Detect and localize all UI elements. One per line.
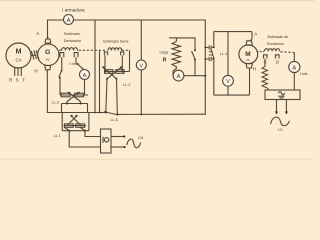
wire: LL.4 branch vertical upper [213,32,215,47]
brush terminal bottom of motor [246,64,252,68]
svg-text:H: H [253,66,256,71]
voltmeter V generator [136,60,146,70]
resistor R zigzag [172,42,181,76]
wire: A terminal drop to motor [251,32,252,41]
svg-text:Derivación: Derivación [64,39,81,43]
svg-text:M: M [16,49,22,56]
svg-text:A: A [254,32,257,37]
svg-text:V: V [139,63,143,69]
motor block top bus [214,31,252,33]
wire: voltmeter V1 branch lower [140,70,142,114]
ammeter A I excit [80,70,90,80]
wire: voltmeter V1 branch upper [140,20,142,60]
ammeter A I armadura [64,15,74,25]
wire: E lead down [104,55,106,71]
svg-text:I exit.: I exit. [300,72,309,76]
AC source squiggle [127,139,141,148]
wire: AC lead right with arrow [285,100,288,115]
lower rheostat crossed wipers [68,115,81,125]
svg-text:LL.5: LL.5 [111,118,118,122]
voltmeter V motor [223,75,234,86]
switch LL.5 blade [104,112,119,116]
svg-text:T: T [22,77,25,82]
svg-text:V: V [226,79,230,85]
ammeter A load [173,70,184,81]
svg-text:I armadura: I armadura [62,7,85,12]
wire: rectifier AC leads right [111,137,124,148]
wire: C lead down [264,59,266,67]
wire: J lead down [61,57,63,70]
wire: LL.1 left pole to rectifier [69,131,100,147]
brush terminal top of G [45,39,51,43]
wire: ammeter to right rail [184,75,205,77]
wire: motor block bottom [214,94,250,96]
wire: collector ends down to bus [62,104,88,113]
top edge strip [0,0,314,1]
lower field rheostat bar [64,124,87,127]
excitation field coil [265,49,280,52]
shunt rheostat crossed wipers [67,92,81,102]
svg-text:A: A [83,73,87,79]
series rheostat crossed wipers [102,66,123,79]
rectifier symbol inside [103,137,109,143]
svg-text:LL.2: LL.2 [123,83,130,87]
switch LL.4 blade [213,46,215,48]
svg-text:CA: CA [15,57,21,62]
svg-text:Bobinado de: Bobinado de [268,35,289,39]
shunt rheostat bar [60,93,88,97]
wire: dashed axis G to coil [59,49,61,51]
wire: motor bottom lead [249,68,251,95]
wire: dashed axis motor to excitation coil [257,51,265,53]
svg-text:A: A [177,74,181,80]
switch LL.3 blade and contacts [61,70,63,72]
lower rheostat bottom lead line [62,130,89,132]
generator G cc [38,44,59,65]
switch load blade and contacts [194,49,196,51]
wire: G armature top lead, top bus, right rail [48,20,206,114]
terminal J of shunt coil [60,53,64,58]
svg-text:D: D [276,60,279,65]
svg-text:A: A [67,18,71,24]
wire: three phase legs of M [15,68,22,76]
load loop top wire [176,38,195,50]
terminal E of series coil [104,52,107,55]
wire: dashed axis right of series coil [122,49,130,51]
wire: LL.1 right pole to rectifier [85,131,101,137]
svg-text:c.a.: c.a. [278,127,283,131]
motor M cc [239,45,258,64]
terminal D [276,55,280,59]
bottom edge strip [0,159,314,160]
svg-text:cc: cc [246,58,250,62]
wire: dashed axis between coils [79,49,107,51]
AC cord curl bottom right [271,117,290,126]
wire: LL.4 branch vertical lower [213,58,215,95]
rectifier box right [265,90,300,100]
svg-text:Bobinado: Bobinado [64,32,80,36]
ammeter A I exit [289,61,300,72]
svg-text:S: S [16,77,19,82]
wire: F lead down [121,55,123,71]
wire: switch to rheostat [59,78,61,95]
plug mid ticks [209,52,213,55]
wire: series rheostat right lead to bus [116,79,119,115]
wire: voltmeter M branch [227,32,229,76]
plug connector pair bottom [205,57,214,61]
series field coil [108,48,122,51]
terminal F of series coil [121,52,124,55]
svg-text:H: H [34,69,37,74]
collector line with junction dots [62,103,88,105]
motor M CA [6,43,31,68]
lower loop box sides [62,113,89,131]
svg-text:R: R [163,57,167,63]
wire: shunt tap vertical x=99.5 [99,52,101,113]
rectifier box left [101,129,112,153]
svg-text:LL.1: LL.1 [54,134,61,138]
svg-text:R: R [9,77,12,82]
wire: bottom bus right segment [119,113,206,115]
brush terminal bottom of G [45,66,51,70]
wire: corner down to excitation ammeter [293,53,295,62]
wire: ammeter down to rheostat [84,80,86,96]
brush terminal top of motor [246,41,252,45]
wire: dashed axis coil to corner [281,51,295,54]
wire: series rheostat left lead to bus [106,79,107,113]
shaft coupling M-G [31,50,39,59]
terminal C [264,55,268,59]
plug connector pair top [205,45,214,49]
svg-text:CA: CA [138,136,144,140]
svg-text:cc: cc [46,58,50,62]
terminal K of shunt coil [74,53,78,58]
excitation rheostat zigzag [262,67,268,91]
svg-text:M: M [245,51,250,58]
svg-text:Carga: Carga [160,50,169,54]
svg-text:Bobinado Serie: Bobinado Serie [103,40,128,44]
wire: vertical below dash end [129,50,131,71]
shunt field coil [62,48,78,51]
wire: ammeter down to rectifier box [293,73,295,90]
svg-text:LL.3: LL.3 [52,101,59,105]
svg-text:Excitación: Excitación [267,42,284,46]
rectifier symbol inside [278,92,284,98]
wire: AC lead left with arrow [275,100,278,115]
svg-text:A: A [292,65,296,71]
wire: K lead to ammeter [76,57,84,69]
wire: wiper legs to collector line [67,102,81,104]
wire: G bottom lead and bottom bus left segment [47,70,105,113]
switch LL.1 blades [64,127,85,130]
svg-text:G: G [45,49,50,56]
series rheostat bars [104,70,130,74]
wire: armature vertical x=95 [94,20,96,113]
svg-text:LL.4: LL.4 [220,52,227,56]
